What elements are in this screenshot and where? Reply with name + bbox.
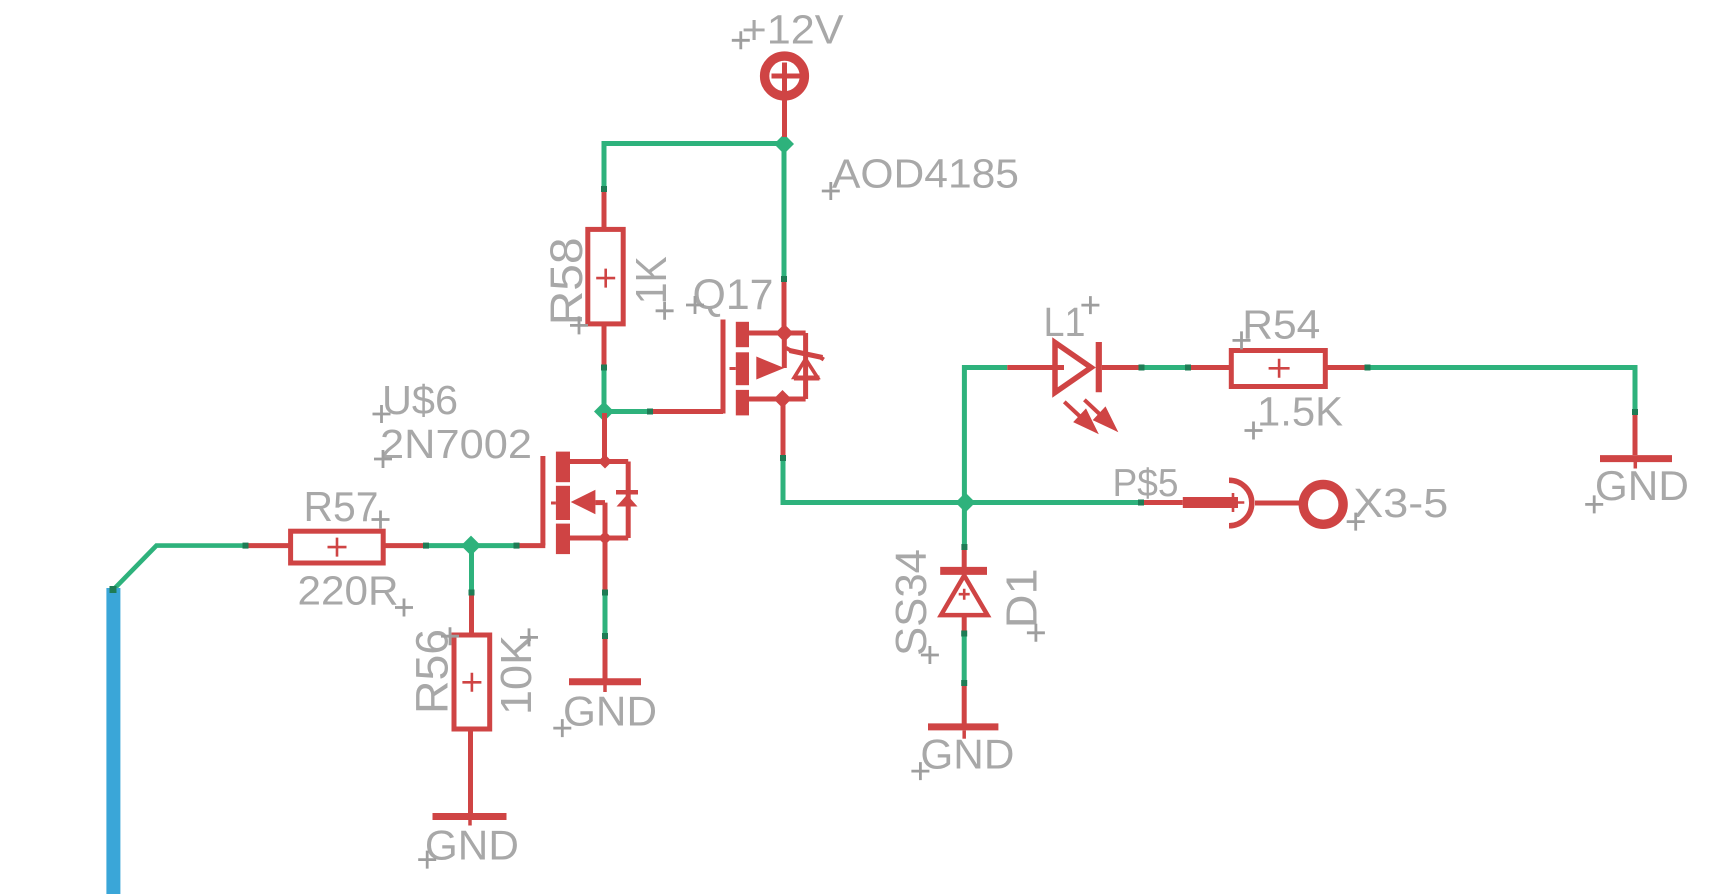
wire Q17 source pin down — [782, 278, 787, 333]
label D1 — [997, 568, 1046, 641]
node junction R57 net — [461, 536, 481, 556]
label Q17 — [686, 271, 774, 319]
power +12V symbol — [765, 56, 805, 137]
wire net LED node right to P$5 — [965, 500, 1141, 505]
ground GND under D1 — [928, 686, 998, 739]
wire R56 top pin — [469, 592, 474, 635]
label 1.5K — [1245, 389, 1344, 440]
label GND right — [1585, 462, 1689, 514]
wire net U$6 source to GND — [603, 592, 608, 637]
ground GND under R56 — [433, 817, 507, 826]
node junction LED net — [955, 493, 975, 513]
wire net LED node down to D1 — [962, 503, 967, 548]
wire D1 top pin — [962, 547, 967, 567]
wire U$6 source pin down — [603, 538, 608, 592]
svg-text:1K: 1K — [627, 256, 676, 304]
svg-text:R58: R58 — [541, 237, 592, 325]
svg-text:SS34: SS34 — [887, 549, 936, 656]
wire net R54 to right GND — [1367, 368, 1635, 413]
label GND under D1 — [911, 731, 1014, 780]
svg-text:2N7002: 2N7002 — [380, 421, 532, 467]
node Q17 drain dot top — [775, 324, 793, 342]
label GND under R56 — [418, 822, 519, 869]
label U$6 — [373, 377, 459, 423]
pin P$5 of connector — [1141, 493, 1244, 512]
wire net +12V vertical to Q17 source — [782, 144, 787, 279]
node dark overlap blue top — [110, 586, 117, 593]
wire U$6 gate pin — [516, 543, 545, 548]
label L1 — [1044, 296, 1100, 345]
svg-text:U$6: U$6 — [382, 377, 458, 423]
node U$6 source dot — [598, 531, 612, 545]
svg-text:P$5: P$5 — [1113, 462, 1179, 505]
label R54 — [1233, 302, 1321, 350]
wire net LED to R54 — [1140, 365, 1189, 370]
resistor R58 — [588, 189, 623, 367]
svg-text:220R: 220R — [298, 568, 399, 614]
label AOD4185 — [822, 151, 1019, 201]
svg-text:GND: GND — [563, 687, 657, 734]
wire gate node to Q17 gate — [604, 409, 650, 414]
svg-text:AOD4185: AOD4185 — [832, 151, 1019, 197]
node junction gate net — [594, 402, 614, 422]
label R57 — [304, 483, 390, 530]
label R58 — [541, 237, 592, 334]
svg-text:1.5K: 1.5K — [1257, 389, 1343, 435]
wire net LED node up and right to LED — [964, 368, 1007, 503]
svg-text:L1: L1 — [1044, 299, 1086, 345]
wire net junction down to R56 — [469, 546, 474, 592]
svg-text:Q17: Q17 — [693, 271, 774, 319]
svg-text:GND: GND — [425, 822, 519, 869]
label X3-5 — [1347, 480, 1449, 531]
wire bus blue line — [106, 588, 120, 894]
wire net R58 bottom to gate node — [602, 367, 607, 412]
wire Q17 drain pin down — [781, 399, 786, 458]
resistor R54 — [1231, 351, 1367, 387]
node junction +12V net — [774, 134, 794, 154]
svg-text:GND: GND — [920, 731, 1014, 778]
svg-text:R57: R57 — [304, 483, 379, 530]
diode D1 — [940, 571, 987, 633]
label 220R — [298, 568, 414, 617]
ground GND under U$6 — [569, 637, 641, 692]
connector X3-5 circle — [1303, 485, 1343, 525]
label 10K — [492, 628, 541, 715]
svg-text:R54: R54 — [1242, 302, 1320, 348]
ground GND right — [1600, 412, 1672, 469]
svg-text:GND: GND — [1595, 462, 1689, 509]
node U$6 drain dot — [598, 455, 612, 469]
label SS34 — [887, 549, 939, 664]
label 2N7002 — [374, 421, 532, 468]
wire net R57 to U$6 gate node — [425, 543, 516, 548]
wire net D1 to GND — [962, 633, 967, 686]
wire R54 left pin — [1188, 365, 1231, 370]
svg-text:D1: D1 — [997, 568, 1046, 628]
wire net +12V horizontal to R58 — [604, 144, 784, 190]
wire U$6 drain pin up — [602, 413, 607, 462]
wire R57 left net with diagonal — [115, 546, 247, 589]
label +12V — [732, 7, 844, 53]
wire LED anode pin — [1007, 365, 1064, 370]
wire overlap marks — [243, 186, 1639, 686]
svg-text:10K: 10K — [492, 635, 541, 715]
LED L1 — [1055, 342, 1140, 430]
label 1K — [627, 256, 676, 320]
wire Q17 gate pin — [650, 409, 723, 414]
resistor R56 — [454, 635, 490, 813]
resistor R57 — [247, 531, 425, 563]
label R56 — [407, 627, 460, 714]
transistor Q17 P-MOSFET — [723, 320, 824, 416]
node Q17 source dot bottom — [774, 390, 792, 408]
wire net Q17 drain to LED node — [783, 458, 965, 503]
label GND under U$6 — [553, 687, 657, 737]
transistor U$6 N-MOSFET — [543, 452, 638, 554]
connector X3-5 socket arc — [1229, 480, 1252, 526]
svg-text:X3-5: X3-5 — [1353, 480, 1448, 526]
connector X3-5 lead — [1255, 501, 1302, 506]
svg-text:+12V: +12V — [742, 7, 845, 53]
